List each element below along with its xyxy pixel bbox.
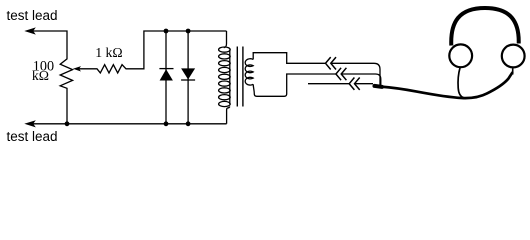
svg-text:1 kΩ: 1 kΩ (95, 45, 123, 60)
svg-text:test lead: test lead (7, 129, 58, 144)
svg-text:kΩ: kΩ (32, 68, 49, 83)
svg-text:test lead: test lead (7, 8, 58, 23)
